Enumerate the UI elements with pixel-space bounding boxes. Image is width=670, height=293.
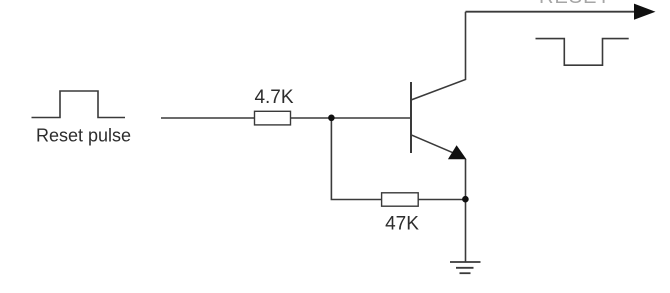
output arrowhead bbox=[634, 4, 656, 20]
input pulse waveform bbox=[32, 91, 126, 118]
wire R1 to base node bbox=[291, 117, 411, 119]
svg-text:RESET: RESET bbox=[539, 0, 611, 8]
transistor Q1 emitter lead bbox=[411, 135, 454, 153]
resistor R2 47K body bbox=[382, 193, 419, 206]
ground bbox=[450, 262, 481, 273]
wire input to R1 bbox=[161, 117, 255, 119]
wire base node to R2 bbox=[331, 118, 381, 200]
wire emitter node down bbox=[465, 159, 467, 262]
svg-text:Reset pulse: Reset pulse bbox=[36, 126, 131, 146]
node junction dot at emitter bbox=[462, 196, 469, 203]
wire R2 to emitter node bbox=[418, 199, 465, 201]
output pulse waveform bbox=[536, 39, 629, 66]
emitter arrowhead bbox=[448, 145, 467, 159]
resistor R1 4.7K body bbox=[255, 111, 291, 125]
node junction dot at base bbox=[328, 115, 335, 122]
wire collector to output arrow bbox=[466, 11, 637, 13]
svg-text:4.7K: 4.7K bbox=[254, 87, 293, 108]
transistor Q1 base bar bbox=[410, 82, 412, 153]
transistor Q1 collector lead bbox=[411, 12, 466, 100]
svg-text:47K: 47K bbox=[385, 214, 419, 235]
